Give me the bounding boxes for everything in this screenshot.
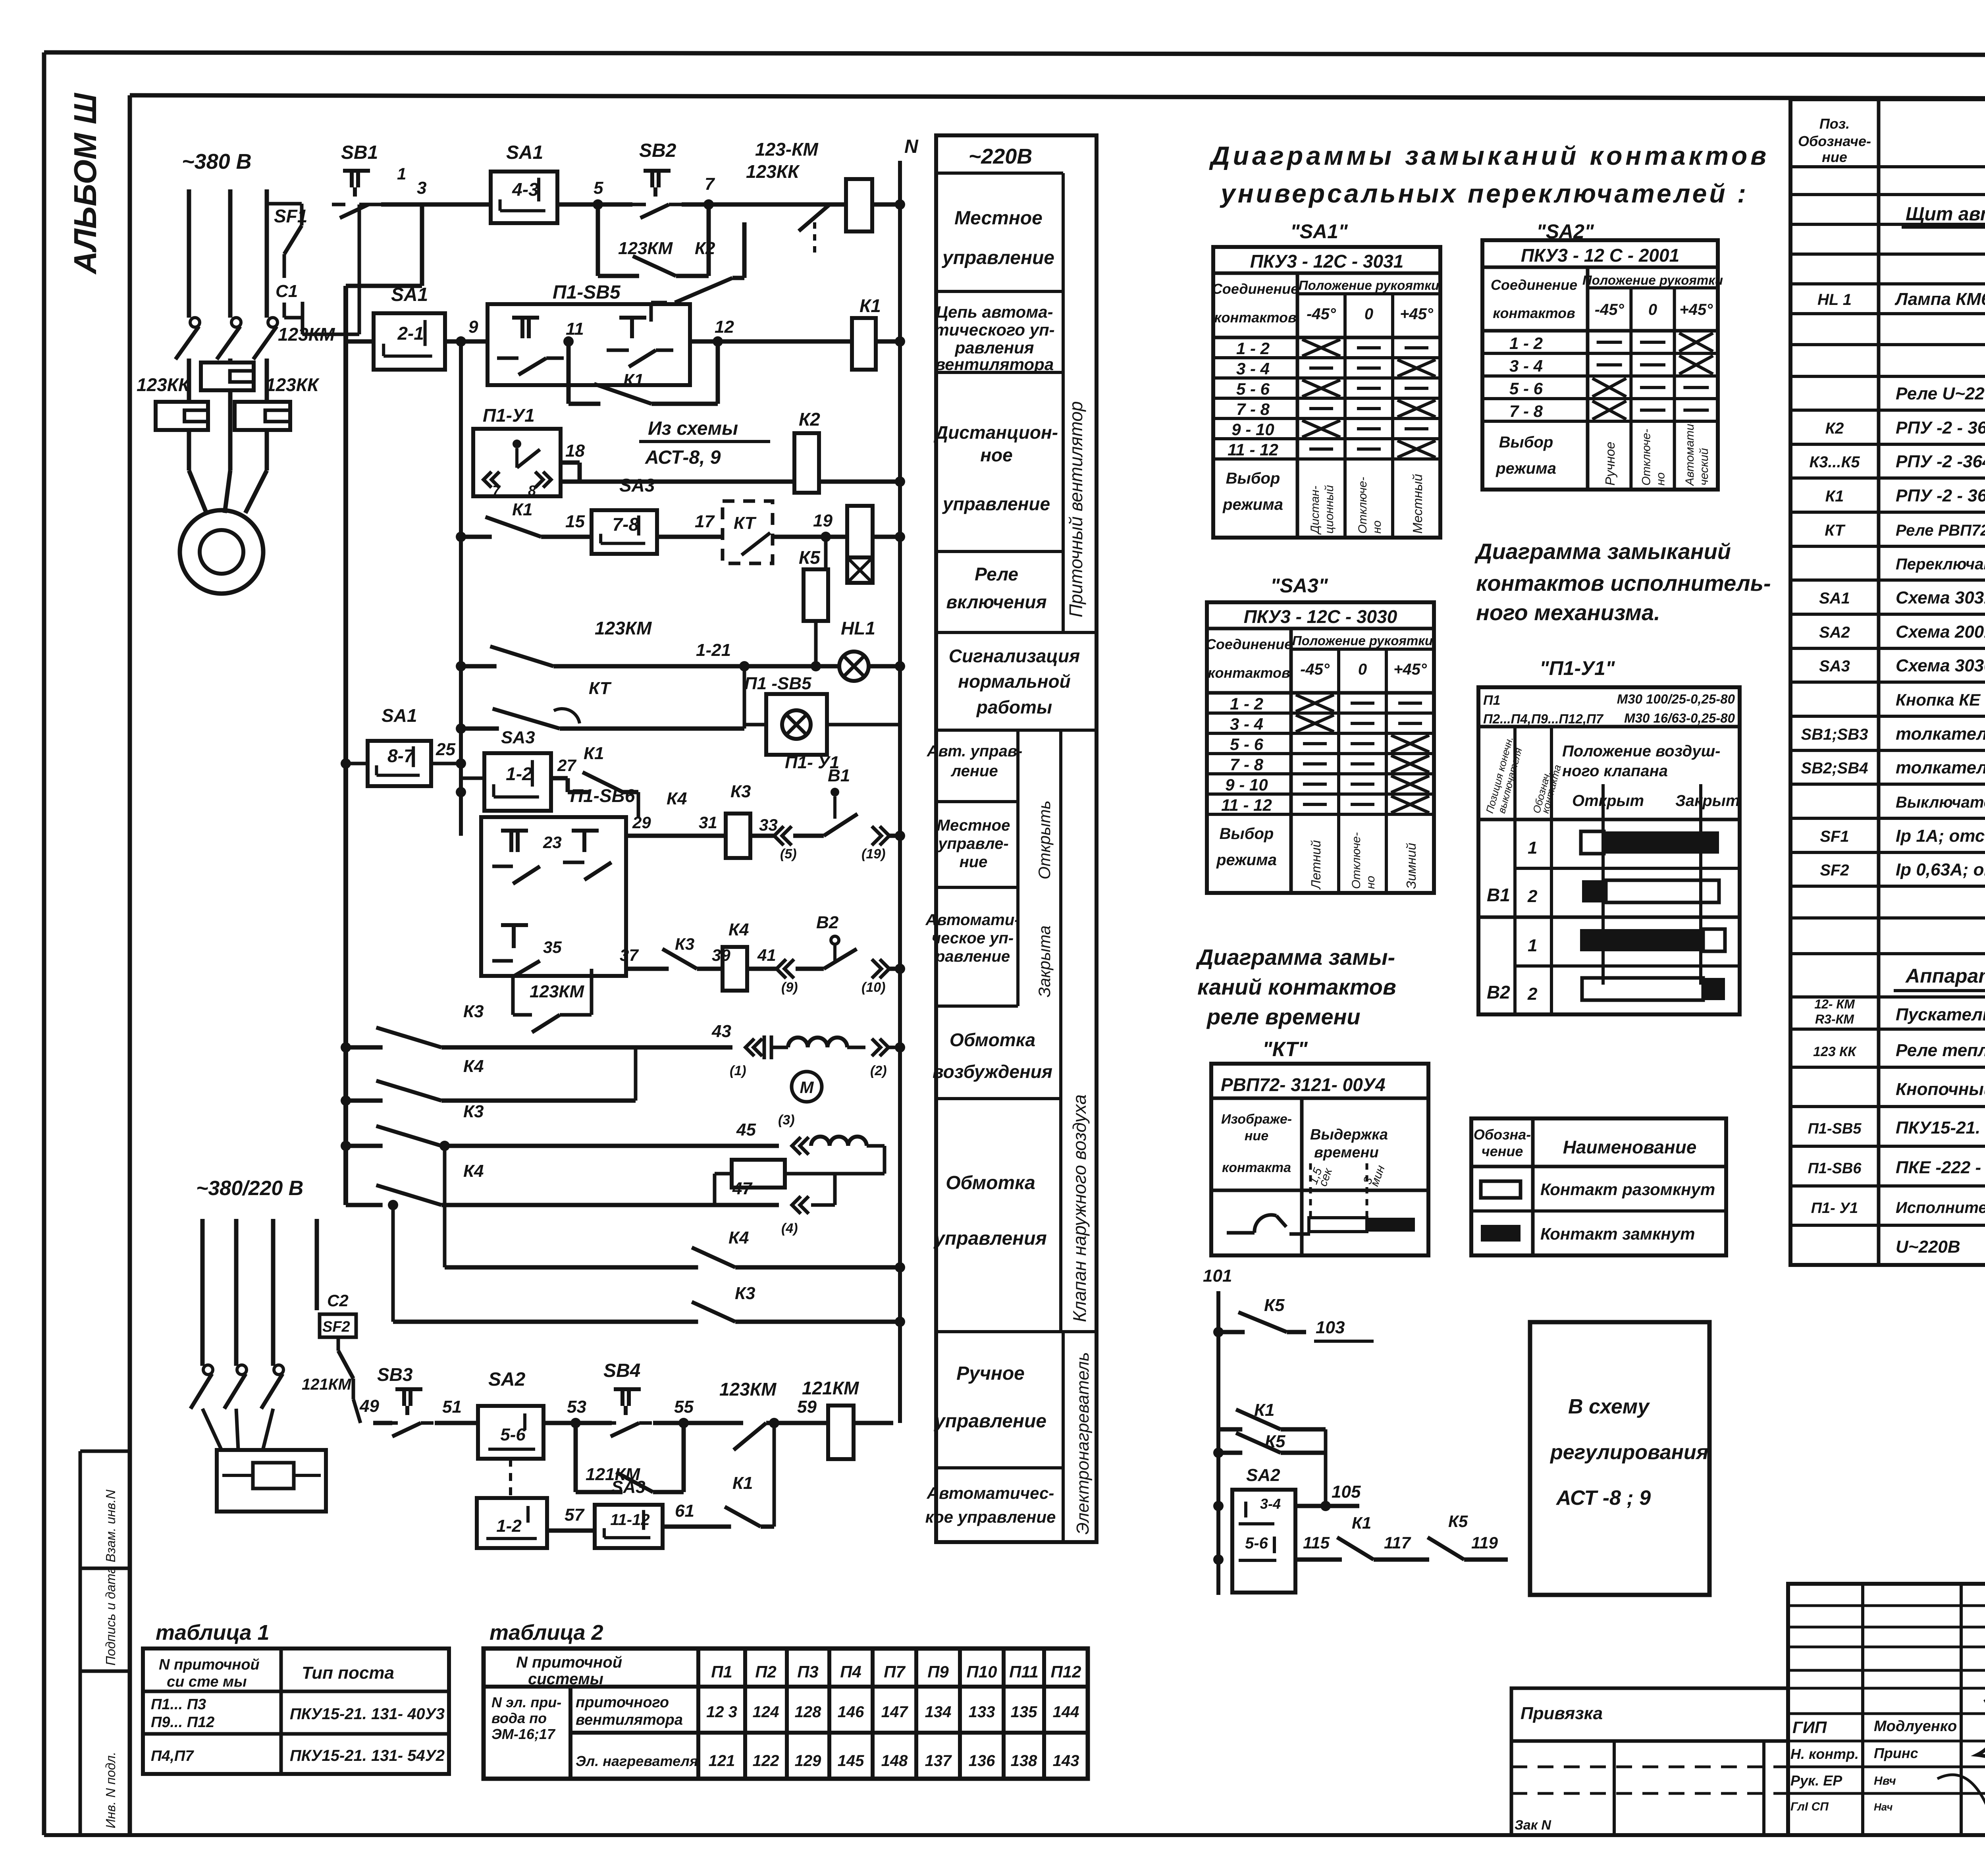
relay contact K5 rung117 [1420, 1512, 1469, 1560]
row label Обмотка возбуждения [933, 1030, 1052, 1082]
svg-text:121КМ: 121КМ [302, 1376, 352, 1393]
svg-text:43: 43 [711, 1022, 731, 1041]
wire node 29 31 [626, 813, 717, 836]
svg-text:ного механизма.: ного механизма. [1476, 600, 1660, 625]
wire node 59 [797, 1397, 828, 1423]
svg-text:18: 18 [565, 441, 585, 461]
svg-text:П7: П7 [884, 1662, 906, 1681]
parts table grid [1790, 99, 1985, 1265]
net label ~380 V [182, 150, 252, 174]
svg-text:ние: ние [1822, 149, 1847, 165]
svg-text:П1- У1: П1- У1 [1811, 1200, 1858, 1217]
field winding circuit with capacitor [730, 1035, 905, 1078]
relay contact K1 rung115 [1328, 1514, 1382, 1560]
signal lamp HL1 [839, 618, 900, 681]
svg-text:27: 27 [557, 756, 576, 775]
relay contact K1 rung4 [461, 500, 564, 537]
contactor coil 123-KM [755, 139, 900, 231]
svg-text:Диаграммы замыканий контакто: Диаграммы замыканий контактов [1209, 141, 1769, 170]
selector switch SA3 contact 11-12 [595, 1477, 663, 1548]
svg-text:Положение рукоятки: Положение рукоятки [1582, 273, 1723, 287]
svg-text:123КМ: 123КМ [595, 618, 652, 638]
svg-text:К5: К5 [1264, 1296, 1285, 1315]
parts row Реле U220 [1896, 384, 1985, 403]
relay coil K5 [799, 537, 828, 671]
wire mid vertical 990 [388, 1200, 398, 1322]
wire feeder phase 2 [234, 1219, 239, 1366]
svg-text:приточного: приточного [576, 1694, 669, 1711]
selector switch SA3 contact 7-8 [592, 475, 657, 554]
svg-text:Взам. инв.N: Взам. инв.N [103, 1490, 118, 1562]
svg-text:Кнопочный пост управления: Кнопочный пост управления [1896, 1080, 1985, 1099]
svg-text:Схема 2001: Схема 2001 [1896, 622, 1985, 642]
svg-text:47: 47 [732, 1179, 753, 1198]
svg-text:123КК: 123КК [137, 374, 191, 395]
svg-text:128: 128 [795, 1703, 821, 1721]
svg-text:кое управление: кое управление [925, 1508, 1056, 1526]
svg-text:П2...П4,П9...П12,П7: П2...П4,П9...П12,П7 [1483, 711, 1604, 726]
row label Обмотка управления [933, 1172, 1047, 1249]
svg-text:17: 17 [695, 512, 715, 531]
push-button SB3 [377, 1364, 434, 1436]
svg-text:Приточный вентилятор: Приточный вентилятор [1066, 401, 1086, 617]
svg-text:К1: К1 [512, 500, 533, 519]
svg-text:толкатель черный: толкатель черный [1896, 758, 1985, 777]
svg-text:Закрыта: Закрыта [1035, 925, 1054, 997]
svg-text:контактов: контактов [1214, 309, 1297, 326]
svg-text:Соединение: Соединение [1206, 636, 1292, 652]
svg-text:РПУ -2 - 36220У 3А: РПУ -2 - 36220У 3А [1896, 418, 1985, 438]
side label Закрыта vertical [1035, 925, 1054, 997]
svg-text:5 - 6: 5 - 6 [1230, 735, 1264, 754]
svg-text:Нвч: Нвч [1874, 1774, 1896, 1787]
svg-text:Схема 3030: Схема 3030 [1896, 656, 1985, 675]
actuator limit box P1-U1 [473, 405, 561, 499]
svg-text:Клапан наружного воздуха: Клапан наружного воздуха [1069, 1094, 1090, 1322]
svg-text:SB3: SB3 [377, 1364, 413, 1385]
svg-text:11: 11 [566, 319, 584, 339]
relay contact K1 rung8 [551, 744, 638, 817]
svg-text:нормальной: нормальной [958, 671, 1070, 692]
relay contact K3 rung to N [393, 1284, 900, 1322]
parts row SB2 SB4 [1801, 758, 1985, 777]
svg-text:Отключе-: Отключе- [1350, 832, 1363, 889]
svg-text:Выдержка: Выдержка [1310, 1126, 1388, 1143]
selector switch SA1 contact 4-3 [491, 142, 557, 223]
wire node 3 [381, 178, 491, 204]
svg-text:C1: C1 [276, 281, 298, 301]
svg-text:Исполнительный механизм МЭО-см: Исполнительный механизм МЭО-см. диаграмм… [1896, 1199, 1985, 1217]
svg-text:П1: П1 [711, 1662, 732, 1681]
wire node 61 [663, 1501, 713, 1527]
svg-text:3 - 4: 3 - 4 [1509, 357, 1543, 375]
relay coil K4 [723, 920, 776, 991]
svg-text:Сигнализация: Сигнализация [949, 646, 1080, 666]
svg-text:37: 37 [620, 946, 639, 964]
svg-text:137: 137 [925, 1752, 952, 1770]
wire node 7 [682, 174, 790, 210]
wire left bus [341, 286, 374, 1205]
svg-text:П9: П9 [927, 1662, 949, 1681]
contactor NC contact 123KM bottom rung [719, 1379, 797, 1450]
row label Автоматическое управление [925, 911, 1019, 965]
selector switch SA2 aux box [1232, 1465, 1295, 1593]
svg-text:К4: К4 [667, 789, 687, 808]
svg-text:8-7: 8-7 [387, 746, 415, 766]
svg-text:М: М [800, 1078, 814, 1097]
motor M1 (double circle) [180, 470, 267, 594]
svg-text:134: 134 [925, 1703, 952, 1721]
svg-text:К3: К3 [730, 782, 751, 801]
svg-text:К1: К1 [1825, 488, 1844, 505]
selector switch SA1 contact 2-1 [374, 284, 445, 370]
svg-text:П1... П3: П1... П3 [151, 1696, 206, 1713]
svg-text:вода по: вода по [491, 1710, 547, 1726]
svg-text:возбуждения: возбуждения [933, 1061, 1052, 1082]
svg-text:ПКЕ -222 - 2У2: ПКЕ -222 - 2У2 [1896, 1158, 1985, 1177]
parts row SF2 [1820, 860, 1985, 879]
parts row Аппаратура по месту [1894, 965, 1985, 991]
svg-text:си сте мы: си сте мы [167, 1674, 247, 1690]
wire node 53 [543, 1397, 612, 1428]
contactor coil 121KM [802, 1378, 893, 1459]
svg-text:49: 49 [359, 1396, 379, 1416]
svg-text:121: 121 [709, 1752, 735, 1770]
wire rung3 node 18 [561, 441, 794, 482]
svg-text:РПУ -2 - 36620 У3А: РПУ -2 - 36620 У3А [1896, 486, 1985, 505]
svg-text:П1-У1: П1-У1 [483, 405, 535, 426]
svg-text:0: 0 [1364, 305, 1373, 323]
svg-text:К3...К5: К3...К5 [1809, 453, 1860, 471]
svg-text:1 - 2: 1 - 2 [1509, 334, 1543, 353]
fuse SF2 and C2 [320, 1291, 360, 1423]
svg-text:Контакт замкнут: Контакт замкнут [1540, 1224, 1695, 1243]
svg-text:Рук. ЕР: Рук. ЕР [1790, 1772, 1842, 1789]
svg-text:SA2: SA2 [1246, 1465, 1280, 1485]
svg-text:контакта: контакта [1222, 1160, 1291, 1175]
svg-text:К4: К4 [728, 1228, 749, 1247]
svg-text:РПУ -2 -36440 У3А: РПУ -2 -36440 У3А [1896, 452, 1985, 471]
svg-text:Инв. N подл.: Инв. N подл. [103, 1752, 118, 1828]
svg-text:136: 136 [969, 1752, 995, 1770]
svg-text:Автомати-: Автомати- [1683, 420, 1696, 486]
wire rung2 to coil K1 [690, 339, 852, 344]
svg-text:SF2: SF2 [322, 1319, 350, 1335]
svg-text:но: но [1364, 876, 1377, 889]
net label ~380/220 V [196, 1177, 303, 1200]
wire feeder phase 1 [200, 1219, 205, 1366]
svg-text:144: 144 [1053, 1703, 1079, 1721]
parts row К1 [1825, 486, 1985, 505]
svg-text:ГлI СП: ГлI СП [1790, 1800, 1829, 1813]
svg-text:N приточной: N приточной [159, 1656, 260, 1673]
svg-text:режима: режима [1216, 851, 1277, 869]
heading Диаграмма замыканий контактов исполнительного механизма [1474, 539, 1771, 625]
svg-text:35: 35 [543, 938, 562, 956]
svg-text:Переключатель ПКУ3 -12С: Переключатель ПКУ3 -12С ТУ16- 526.047-74 [1896, 555, 1985, 573]
svg-text:Соединение: Соединение [1491, 277, 1577, 293]
svg-text:К4: К4 [463, 1057, 484, 1076]
relay contact K3 rung43 [346, 1002, 732, 1047]
relay contact K1 aux [1218, 1400, 1326, 1506]
indicator coil with X rung4 [847, 506, 900, 583]
relay contact K3 rung45 [346, 1102, 809, 1155]
wire node 57 [547, 1505, 595, 1531]
svg-text:R3-КМ: R3-КМ [1815, 1012, 1854, 1026]
svg-text:3 - 4: 3 - 4 [1236, 359, 1270, 378]
svg-text:1 - 2: 1 - 2 [1230, 694, 1263, 713]
svg-text:М30 100/25-0,25-80: М30 100/25-0,25-80 [1617, 692, 1735, 706]
svg-text:П12: П12 [1051, 1662, 1081, 1681]
svg-text:управление: управление [942, 494, 1050, 514]
svg-text:"П1-У1": "П1-У1" [1540, 657, 1615, 679]
svg-text:SA3: SA3 [619, 475, 655, 496]
relay coil K3 [726, 782, 751, 858]
svg-text:Реле U~220В; ТУ16 -523.3: Реле U~220В; ТУ16 -523.331- 78 [1896, 384, 1985, 403]
svg-text:Летний: Летний [1309, 840, 1323, 890]
parts row Кнопка КЕ-011 [1896, 690, 1985, 709]
selector switch SA2 contact 5-6 [478, 1369, 543, 1459]
svg-text:1: 1 [1528, 936, 1537, 955]
svg-text:41: 41 [757, 946, 776, 964]
svg-text:управление: управление [942, 247, 1054, 268]
svg-text:Открыть: Открыть [1035, 800, 1054, 879]
wire node 49 [359, 1396, 392, 1423]
feeder switch contacts 121KM [191, 1365, 352, 1409]
svg-text:ПКУ15-21. 131- 40У3: ПКУ15-21. 131- 40У3 [290, 1705, 445, 1723]
push-button post P1-SB5 box [488, 282, 734, 385]
svg-text:ПКУ3 - 12 С - 2001: ПКУ3 - 12 С - 2001 [1521, 245, 1679, 266]
svg-text:Тип поста: Тип поста [302, 1663, 394, 1683]
svg-text:ЭМ-16;17: ЭМ-16;17 [491, 1726, 556, 1742]
parts table header [1798, 116, 1985, 165]
svg-text:Закрыт: Закрыт [1675, 792, 1740, 810]
time relay contact KT rung6 [461, 679, 744, 729]
svg-text:П2: П2 [755, 1662, 777, 1681]
svg-text:HL 1: HL 1 [1817, 291, 1852, 308]
svg-text:Обмотка: Обмотка [946, 1172, 1035, 1193]
svg-text:-45°: -45° [1307, 305, 1336, 323]
svg-text:+45°: +45° [1679, 301, 1713, 318]
svg-text:ческое уп-: ческое уп- [932, 929, 1014, 947]
svg-text:SF1: SF1 [1820, 828, 1849, 845]
svg-text:контактов: контактов [1208, 665, 1290, 681]
limit switch B2 with travel arrows [747, 913, 900, 995]
relay contact K1 bottom rung [713, 1418, 779, 1527]
svg-text:таблица 2: таблица 2 [490, 1621, 603, 1645]
svg-text:К4: К4 [463, 1161, 484, 1181]
wire phase B [228, 189, 233, 318]
svg-text:Выбор: Выбор [1499, 434, 1553, 451]
svg-text:5 - 6: 5 - 6 [1236, 380, 1270, 398]
selector switch SA1 contact 8-7 [346, 705, 461, 786]
parts row Выключатель А63 [1896, 794, 1985, 811]
table 2 caption [490, 1621, 603, 1645]
parts row Щит автоматизации 1ЩА [1902, 204, 1985, 227]
svg-text:123КК: 123КК [266, 374, 320, 395]
svg-text:7-8: 7-8 [613, 514, 639, 535]
svg-text:В1: В1 [1487, 885, 1510, 905]
control winding circuit with resistor [715, 1137, 885, 1205]
svg-text:КТ: КТ [734, 513, 757, 533]
function column table grid [936, 135, 1097, 1542]
row label Местное управление [942, 208, 1054, 268]
svg-text:55: 55 [674, 1397, 694, 1417]
svg-text:45: 45 [736, 1120, 756, 1139]
motor symbol M small circle [792, 1072, 822, 1102]
svg-text:U~220В: U~220В [1896, 1237, 1960, 1257]
title block revision table [1788, 1584, 1985, 1835]
svg-text:(9): (9) [781, 980, 798, 995]
parts row SA2 [1819, 622, 1985, 642]
svg-text:Обозна-: Обозна- [1474, 1126, 1531, 1143]
svg-text:(4): (4) [781, 1221, 798, 1236]
svg-text:SB2;SB4: SB2;SB4 [1801, 760, 1868, 777]
svg-text:Местный: Местный [1410, 474, 1425, 534]
svg-text:1 - 2: 1 - 2 [1236, 339, 1270, 358]
svg-text:117: 117 [1384, 1533, 1411, 1552]
svg-text:HL1: HL1 [841, 618, 875, 638]
svg-text:(2): (2) [870, 1063, 887, 1078]
svg-text:реле времени: реле времени [1206, 1004, 1361, 1029]
parts row К3-К5 [1809, 452, 1985, 471]
row label Сигнализация нормальной работы [949, 646, 1080, 717]
wire N bus [895, 136, 919, 1423]
svg-text:ГИП: ГИП [1792, 1718, 1827, 1737]
svg-text:ПКУ15-21. 131.....: ПКУ15-21. 131..... [1896, 1118, 1985, 1138]
svg-text:148: 148 [881, 1752, 908, 1770]
svg-text:SA1: SA1 [1819, 590, 1850, 607]
svg-text:5-6: 5-6 [1245, 1535, 1268, 1552]
svg-text:П1-SB5: П1-SB5 [1808, 1120, 1862, 1137]
binding strip Привязка [1511, 1688, 1788, 1835]
wire feeder phase 4 [315, 1219, 319, 1310]
table 1 grid [143, 1648, 449, 1774]
svg-text:51: 51 [442, 1397, 462, 1417]
svg-text:147: 147 [881, 1703, 908, 1721]
svg-text:Соединение: Соединение [1212, 281, 1299, 297]
svg-text:145: 145 [838, 1752, 864, 1770]
svg-text:К3: К3 [463, 1102, 484, 1121]
relay contact K4 rung9 [667, 789, 726, 836]
svg-text:К2: К2 [695, 239, 715, 258]
svg-text:П10: П10 [967, 1662, 997, 1681]
svg-text:0: 0 [1648, 301, 1657, 318]
svg-text:12 3: 12 3 [706, 1703, 737, 1721]
svg-text:универсальных переключателей: универсальных переключателей : [1220, 179, 1748, 208]
relay contact K5 rung101 [1218, 1296, 1374, 1341]
svg-text:Положение воздуш-: Положение воздуш- [1562, 742, 1720, 760]
svg-text:25: 25 [436, 740, 455, 759]
svg-text:11 - 12: 11 - 12 [1228, 440, 1278, 459]
svg-text:SA2: SA2 [488, 1369, 526, 1390]
row label Цепь автоматического управления вентилятора [934, 303, 1054, 374]
wire node 55 [653, 1397, 719, 1428]
row label Автоматическое управление bottom [925, 1484, 1056, 1526]
svg-text:Авт. управ-: Авт. управ- [927, 742, 1023, 760]
relay contact K2 branch [651, 222, 744, 322]
svg-text:каний контактов: каний контактов [1197, 974, 1396, 999]
svg-text:(5): (5) [780, 846, 797, 862]
svg-text:Местное: Местное [954, 208, 1043, 229]
svg-text:8: 8 [528, 482, 536, 499]
svg-text:SB1: SB1 [341, 142, 378, 163]
svg-text:Реле: Реле [975, 564, 1018, 584]
svg-text:SA1: SA1 [391, 284, 428, 305]
svg-text:ПКУ3 - 12С - 3030: ПКУ3 - 12С - 3030 [1244, 606, 1397, 627]
svg-text:N эл. при-: N эл. при- [491, 1694, 561, 1710]
contactor aux contact 123KM below P1-SB6 [513, 969, 592, 1032]
svg-text:19: 19 [813, 511, 833, 530]
svg-text:135: 135 [1011, 1703, 1037, 1721]
svg-text:КТ: КТ [589, 679, 612, 698]
parts row Кнопочный пост [1896, 1080, 1985, 1099]
svg-text:П3: П3 [797, 1662, 819, 1681]
push-button SB4 [603, 1360, 652, 1436]
svg-text:N: N [904, 136, 919, 157]
svg-text:К1: К1 [732, 1473, 753, 1493]
parts row Переключатель [1896, 555, 1985, 573]
parts row SA1 [1819, 588, 1985, 607]
svg-text:контактов исполнитель-: контактов исполнитель- [1476, 571, 1771, 596]
svg-text:3 - 4: 3 - 4 [1230, 715, 1263, 733]
svg-text:143: 143 [1053, 1752, 1079, 1770]
relay coil K1 rung2 [852, 295, 900, 370]
svg-text:В1: В1 [828, 766, 850, 785]
wire rung 115-119 [1295, 1533, 1330, 1560]
svg-text:123КК: 123КК [746, 161, 800, 182]
svg-text:9 - 10: 9 - 10 [1231, 420, 1274, 439]
svg-text:5-6: 5-6 [500, 1425, 526, 1444]
svg-text:138: 138 [1011, 1752, 1037, 1770]
svg-text:Поз.: Поз. [1819, 116, 1850, 132]
svg-text:К1: К1 [1352, 1514, 1371, 1532]
svg-text:146: 146 [838, 1703, 864, 1721]
svg-text:Дистан-: Дистан- [1309, 486, 1322, 535]
svg-text:~220В: ~220В [969, 145, 1033, 168]
svg-text:124: 124 [753, 1703, 779, 1721]
parts row Пускатель магнитный [1814, 997, 1985, 1061]
wire node 9 [445, 317, 488, 341]
svg-text:ческий: ческий [1698, 448, 1711, 486]
heading Диаграмма замыканий контактов реле времени КТ [1196, 945, 1396, 1061]
svg-text:К5: К5 [1448, 1512, 1468, 1531]
svg-text:1-2: 1-2 [506, 764, 532, 784]
svg-text:но: но [1370, 521, 1384, 534]
svg-text:тического уп-: тического уп- [934, 320, 1054, 339]
svg-text:Ручное: Ручное [956, 1363, 1025, 1384]
svg-text:К5: К5 [1265, 1432, 1285, 1451]
svg-text:С2: С2 [327, 1291, 349, 1310]
svg-text:К2: К2 [1825, 420, 1844, 437]
svg-text:Из схемы: Из схемы [648, 418, 738, 439]
svg-text:Открыт: Открыт [1572, 792, 1644, 810]
svg-text:П11: П11 [1009, 1662, 1039, 1681]
svg-text:29: 29 [632, 813, 651, 832]
note Из схемы АСТ-8 9 [639, 418, 770, 468]
row label Ручное управление [934, 1363, 1046, 1432]
svg-text:59: 59 [797, 1397, 817, 1417]
svg-text:Зак N: Зак N [1515, 1818, 1551, 1833]
relay contact K5 rung3659 [1218, 1432, 1326, 1453]
svg-text:1-2: 1-2 [496, 1516, 522, 1536]
svg-text:управления: управления [933, 1228, 1047, 1249]
svg-text:1-21: 1-21 [696, 640, 731, 660]
row label Авт управление [927, 742, 1023, 780]
svg-text:1: 1 [397, 164, 406, 183]
parts row SA3 [1819, 656, 1985, 675]
left margin stamp strip [80, 1451, 130, 1835]
